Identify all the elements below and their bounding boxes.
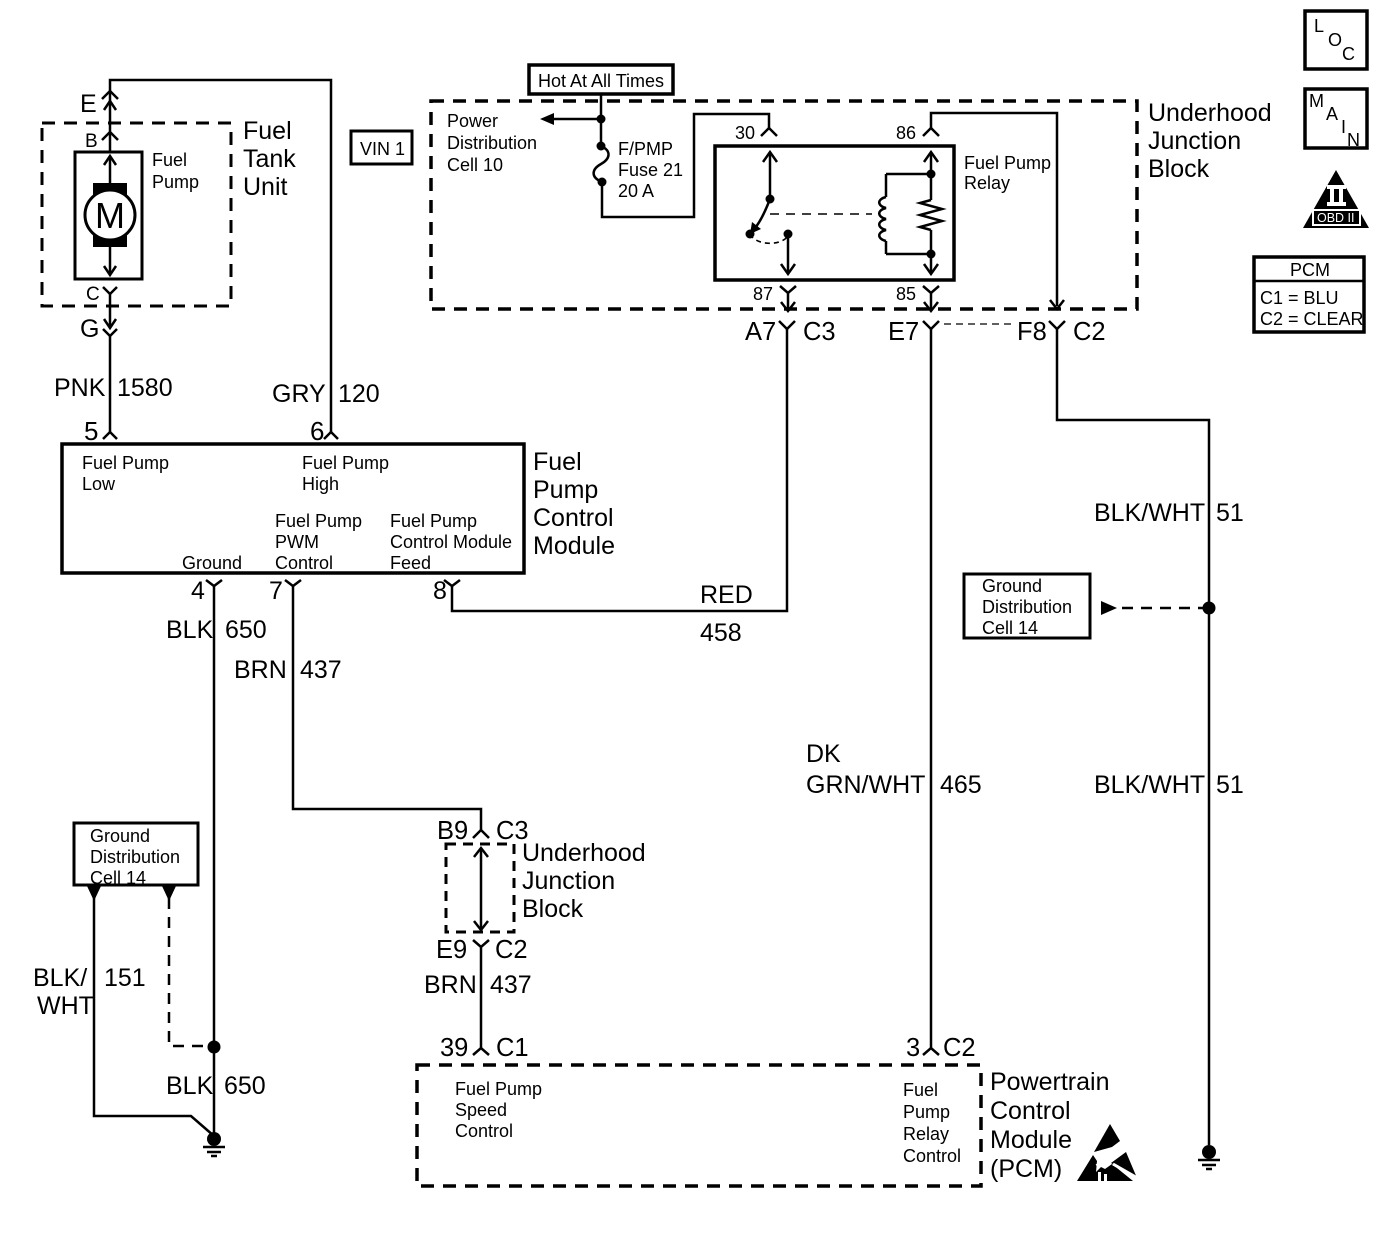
connector F8 of C2 [1049, 321, 1065, 341]
wire BRN 437 pin7 down and over to B9 [293, 601, 481, 830]
svg-text:Relay: Relay [903, 1124, 949, 1144]
svg-text:Pump: Pump [533, 476, 598, 504]
pin 30 connector chevron [761, 128, 777, 136]
svg-text:A: A [1326, 104, 1338, 124]
svg-text:C: C [1342, 44, 1355, 64]
relay pin87 internal arrow down [781, 234, 795, 274]
relay switch arm with arrowhead [750, 199, 770, 234]
svg-text:51: 51 [1216, 771, 1244, 799]
svg-text:F/PMP: F/PMP [618, 139, 673, 159]
svg-text:OBD II: OBD II [1317, 211, 1355, 225]
svg-text:7: 7 [269, 577, 283, 605]
relay switch pivot node [766, 195, 775, 204]
svg-text:E: E [80, 90, 97, 118]
wire RED 458 pin8 down, right, up to A7 [452, 341, 787, 611]
junction node at fuse top feed [597, 115, 606, 124]
svg-text:PNK: PNK [54, 374, 106, 402]
wire: 86 feed from top [931, 113, 1057, 306]
Underhood Junction Block small dashed box [446, 844, 514, 932]
svg-text:F8: F8 [1017, 318, 1047, 346]
svg-text:Underhood: Underhood [1148, 99, 1272, 127]
wire DK GRN/WHT 465 from E7 to PCM pin 3 [930, 341, 933, 1048]
PCM connector legend table [1254, 257, 1364, 332]
connector pin 39 of C1 (chevron) [473, 1048, 489, 1055]
svg-text:85: 85 [896, 284, 916, 304]
svg-text:Distribution: Distribution [447, 133, 537, 153]
svg-text:Fuel: Fuel [152, 150, 187, 170]
relay actuation dashed line [770, 213, 872, 215]
svg-text:650: 650 [225, 616, 267, 644]
Powertrain Control Module dashed box [417, 1065, 981, 1186]
svg-text:20 A: 20 A [618, 181, 654, 201]
svg-text:Junction: Junction [522, 867, 615, 895]
svg-text:151: 151 [104, 964, 146, 992]
svg-text:BLK: BLK [166, 616, 214, 644]
svg-text:C3: C3 [803, 318, 836, 346]
Hot At All Times box [529, 65, 673, 94]
wire BLK/WHT 51 from F8 to ground [1057, 341, 1209, 1145]
svg-text:E7: E7 [888, 318, 919, 346]
pin 87 connector Y with arrow to A7 [780, 286, 796, 311]
svg-text:Relay: Relay [964, 173, 1010, 193]
svg-text:Fuel Pump: Fuel Pump [390, 511, 477, 531]
svg-text:BRN: BRN [234, 656, 287, 684]
svg-text:BLK: BLK [166, 1072, 214, 1100]
svg-text:Fuel: Fuel [903, 1080, 938, 1100]
svg-text:5: 5 [84, 416, 98, 446]
wire: from Hot At All Times box down to fuse [600, 94, 603, 146]
relay coil bottom node [927, 250, 936, 259]
svg-text:Fuse 21: Fuse 21 [618, 160, 683, 180]
svg-text:GRY: GRY [272, 380, 326, 408]
svg-text:Block: Block [1148, 155, 1210, 183]
svg-text:Fuel: Fuel [533, 448, 582, 476]
arrowhead left at power distribution [540, 113, 554, 125]
fuse F/PMP Fuse 21 top terminal [597, 142, 606, 151]
svg-text:1580: 1580 [117, 374, 173, 402]
Fuel Pump Control Module box U2 [62, 444, 524, 573]
wire: arrow to power distribution (left) [554, 118, 601, 121]
svg-text:GRN/WHT: GRN/WHT [806, 771, 925, 799]
svg-text:C2: C2 [495, 936, 528, 964]
svg-text:Fuel Pump: Fuel Pump [964, 153, 1051, 173]
svg-text:B9: B9 [437, 817, 468, 845]
svg-text:437: 437 [300, 656, 342, 684]
relay contact node 87-left [746, 230, 755, 239]
svg-text:Power: Power [447, 111, 498, 131]
svg-text:BLK/WHT: BLK/WHT [1094, 771, 1205, 799]
svg-text:M: M [95, 195, 125, 236]
svg-text:BRN: BRN [424, 971, 477, 999]
svg-text:Control: Control [533, 504, 614, 532]
dashed link E7 to F8 [944, 323, 1012, 325]
svg-text:86: 86 [896, 123, 916, 143]
svg-text:I: I [1341, 117, 1346, 137]
relay coil resistor R1 (zigzag) [920, 200, 942, 230]
wire: C down to G with down arrow [104, 300, 116, 328]
svg-text:Module: Module [533, 532, 615, 560]
wire BLK 650 pin4 down to ground [213, 601, 216, 1139]
fuse bottom terminal [598, 178, 607, 187]
svg-text:C2: C2 [943, 1034, 976, 1062]
arrow from ground distribution cell 14 (right) [1101, 601, 1117, 615]
svg-text:87: 87 [753, 284, 773, 304]
svg-text:BLK/: BLK/ [33, 964, 87, 992]
svg-text:6: 6 [310, 416, 324, 446]
svg-text:30: 30 [735, 123, 755, 143]
svg-text:Underhood: Underhood [522, 839, 646, 867]
F8 feed arrowhead at block edge [1050, 300, 1064, 309]
svg-text:Distribution: Distribution [90, 847, 180, 867]
motor M1 brushes [93, 183, 127, 199]
svg-text:Control: Control [275, 553, 333, 573]
svg-text:L: L [1314, 16, 1324, 36]
arrow down solid (left, BLK/WHT 151) [87, 886, 101, 901]
pin 86 connector chevron [923, 128, 939, 136]
ESD sensitivity symbol [1077, 1124, 1141, 1181]
junction block internal arrow (both ends) [474, 848, 488, 930]
svg-text:Fuel Pump: Fuel Pump [275, 511, 362, 531]
svg-text:Junction: Junction [1148, 127, 1241, 155]
svg-text:Cell 14: Cell 14 [90, 868, 146, 888]
svg-text:4: 4 [191, 577, 205, 605]
svg-text:O: O [1328, 30, 1342, 50]
Ground Distribution Cell 14 box (right) [964, 574, 1090, 638]
svg-text:M: M [1309, 91, 1324, 111]
Underhood Junction Block large dashed box [431, 101, 1137, 309]
svg-text:Control Module: Control Module [390, 532, 512, 552]
pin 8 connector Y [444, 580, 460, 601]
svg-text:VIN 1: VIN 1 [360, 139, 405, 159]
svg-text:Feed: Feed [390, 553, 431, 573]
svg-text:C2: C2 [1073, 318, 1106, 346]
LOC legend box [1305, 11, 1367, 69]
VIN 1 box [351, 131, 412, 164]
connector B9 of C3 (chevron) [473, 830, 489, 838]
svg-text:Distribution: Distribution [982, 597, 1072, 617]
fuel pump inner box [75, 152, 142, 279]
svg-text:Ground: Ground [90, 826, 150, 846]
svg-text:WHT: WHT [37, 992, 94, 1020]
svg-text:RED: RED [700, 581, 753, 609]
connector A7 of C3 [779, 321, 795, 341]
svg-text:Ground: Ground [182, 553, 242, 573]
wire: pump internal bottom with down arrow [104, 247, 116, 275]
svg-text:39: 39 [440, 1034, 468, 1062]
svg-text:E9: E9 [436, 936, 467, 964]
connector C (Y, pump side) [103, 287, 117, 300]
pin 7 connector Y [285, 580, 301, 601]
svg-text:PCM: PCM [1290, 260, 1330, 280]
svg-text:Control: Control [990, 1097, 1071, 1125]
relay dashed contact arc [750, 234, 788, 243]
Fuel Pump Relay box K1 [715, 146, 954, 280]
svg-text:Fuel Pump: Fuel Pump [302, 453, 389, 473]
MAIN legend box [1305, 89, 1367, 150]
svg-text:Fuel Pump: Fuel Pump [82, 453, 169, 473]
connector E (double chevron, harness side) [102, 91, 118, 110]
connector G (Y, harness side) [103, 329, 117, 432]
svg-text:Fuel Pump: Fuel Pump [455, 1079, 542, 1099]
svg-text:Powertrain: Powertrain [990, 1068, 1110, 1096]
wire: connector E down through B into pump box [109, 91, 112, 152]
relay coil L1 [879, 174, 931, 254]
svg-text:Fuel: Fuel [243, 117, 292, 145]
svg-text:Unit: Unit [243, 173, 288, 201]
pin 5 connector chevron [103, 432, 117, 439]
svg-text:465: 465 [940, 771, 982, 799]
svg-text:Ground: Ground [982, 576, 1042, 596]
connector E9 of C2 (Y) [473, 940, 489, 963]
wire GRY loop: pin6 up, across top, down to connector E [110, 80, 331, 432]
svg-text:B: B [85, 131, 98, 152]
svg-text:Control: Control [455, 1121, 513, 1141]
svg-text:(PCM): (PCM) [990, 1155, 1062, 1183]
relay pin30 internal arrow up [763, 152, 777, 199]
junction node on BLK 650 [208, 1041, 221, 1054]
svg-text:458: 458 [700, 619, 742, 647]
svg-text:A7: A7 [745, 318, 776, 346]
motor M1 circle [85, 190, 135, 240]
svg-text:High: High [302, 474, 339, 494]
relay contact node 87 [784, 230, 793, 239]
svg-text:G: G [80, 315, 99, 343]
svg-text:C: C [86, 284, 100, 305]
svg-text:Hot At All Times: Hot At All Times [538, 71, 664, 91]
relay pin85 internal arrow down [924, 254, 938, 274]
relay coil top node [927, 170, 936, 179]
pin 85 connector Y with arrow to E7 [923, 286, 939, 311]
relay pin86 internal line resistor [930, 174, 933, 200]
svg-text:Pump: Pump [152, 172, 199, 192]
OBD II symbol [1303, 170, 1369, 228]
svg-text:Pump: Pump [903, 1102, 950, 1122]
svg-text:Control: Control [903, 1146, 961, 1166]
svg-text:437: 437 [490, 971, 532, 999]
pin 4 connector Y [206, 580, 222, 601]
svg-text:Cell 10: Cell 10 [447, 155, 503, 175]
junction node on BLK/WHT 51 [1203, 602, 1216, 615]
svg-text:Cell 14: Cell 14 [982, 618, 1038, 638]
svg-text:C2 = CLEAR: C2 = CLEAR [1260, 309, 1364, 329]
wire BLK/WHT 151 down to ground [94, 898, 214, 1136]
arrow down dashed feed [162, 886, 176, 901]
svg-text:Tank: Tank [243, 145, 296, 173]
Ground Distribution Cell 14 box (left) [74, 823, 198, 885]
svg-text:Module: Module [990, 1126, 1072, 1154]
wire: fuse to relay pin 30 [602, 114, 769, 217]
svg-text:PWM: PWM [275, 532, 319, 552]
relay pin86 internal arrow up [924, 152, 938, 174]
svg-text:Block: Block [522, 895, 584, 923]
svg-text:DK: DK [806, 740, 841, 768]
svg-text:120: 120 [338, 380, 380, 408]
svg-text:Speed: Speed [455, 1100, 507, 1120]
connector B (chevron) [102, 132, 118, 140]
svg-text:N: N [1347, 130, 1360, 150]
ground G1 (left) [203, 1132, 225, 1156]
svg-text:650: 650 [224, 1072, 266, 1100]
connector pin 3 of C2 (chevron) [923, 1048, 939, 1055]
wire BRN 437 to PCM pin 39 [480, 963, 483, 1048]
wire: pump internal top with up arrow [104, 156, 116, 183]
dashed wire to BLK/WHT junction [1122, 607, 1203, 610]
svg-text:BLK/WHT: BLK/WHT [1094, 499, 1205, 527]
pin 6 connector chevron [324, 432, 338, 439]
connector E7 of C2 [923, 321, 939, 341]
svg-text:C1: C1 [496, 1034, 529, 1062]
Fuel Tank Unit dashed box [42, 123, 231, 306]
svg-text:51: 51 [1216, 499, 1244, 527]
fuse element (s-curve) [594, 146, 609, 182]
svg-text:3: 3 [906, 1034, 920, 1062]
dashed wire to BLK 650 junction [169, 898, 205, 1046]
svg-text:C1 = BLU: C1 = BLU [1260, 288, 1339, 308]
ground G2 (right) [1198, 1145, 1220, 1169]
svg-text:Low: Low [82, 474, 116, 494]
